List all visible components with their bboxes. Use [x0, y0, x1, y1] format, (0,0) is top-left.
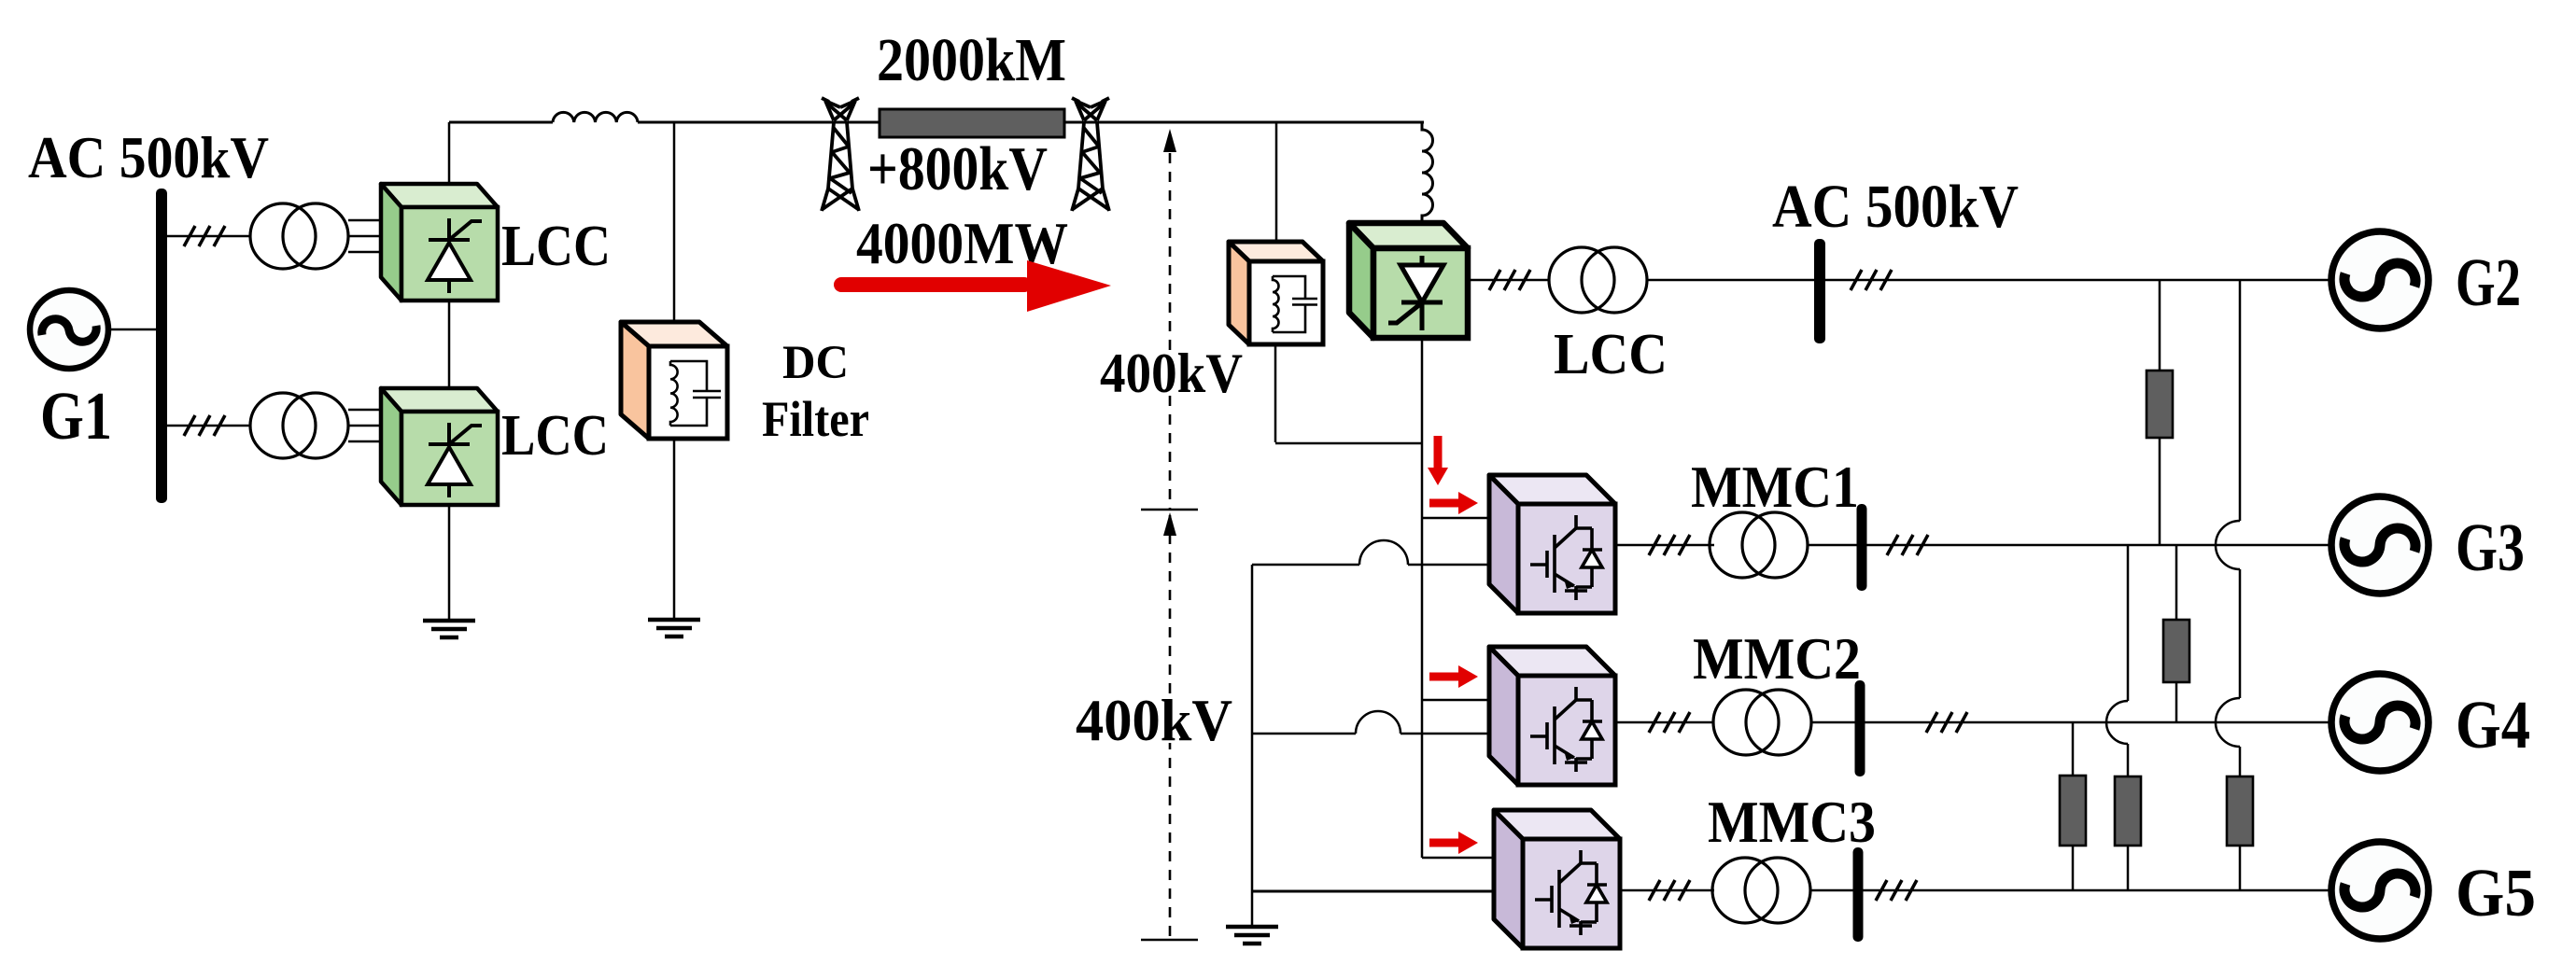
svg-text:LCC: LCC [1554, 323, 1668, 386]
svg-text:LCC: LCC [501, 404, 609, 468]
svg-text:400kV: 400kV [1076, 687, 1232, 753]
svg-text:MMC2: MMC2 [1693, 625, 1861, 692]
svg-text:2000kM: 2000kM [877, 26, 1066, 94]
svg-text:DC: DC [782, 337, 849, 389]
svg-text:MMC1: MMC1 [1691, 454, 1859, 520]
svg-text:Filter: Filter [762, 391, 869, 447]
svg-text:G4: G4 [2456, 687, 2530, 762]
svg-text:G5: G5 [2456, 855, 2536, 930]
svg-text:MMC3: MMC3 [1708, 789, 1876, 855]
svg-text:G2: G2 [2456, 245, 2521, 320]
svg-text:400kV: 400kV [1100, 343, 1243, 404]
svg-text:AC 500kV: AC 500kV [1772, 173, 2019, 241]
svg-text:G3: G3 [2456, 510, 2525, 585]
svg-text:AC 500kV: AC 500kV [28, 124, 269, 190]
svg-text:G1: G1 [40, 378, 112, 454]
svg-text:LCC: LCC [501, 215, 611, 278]
svg-text:+800kV: +800kV [867, 134, 1048, 203]
